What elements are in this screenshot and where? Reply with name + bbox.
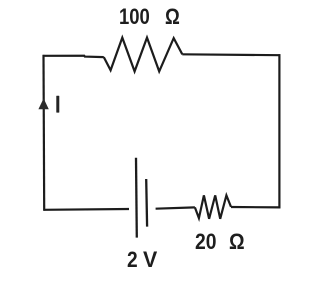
battery B1 long plate xyxy=(135,158,138,238)
wire bottom-left segment (corner to battery) xyxy=(43,208,129,211)
resistor R2 20 ohm xyxy=(195,195,231,218)
wire left vertical xyxy=(42,55,45,211)
wire top-left segment xyxy=(43,56,104,57)
label ohm (R2 unit) xyxy=(229,231,245,253)
wire bottom-mid segment (battery to R2) xyxy=(156,207,195,208)
label ohm (R1 unit) xyxy=(165,6,180,28)
wire top-right segment xyxy=(182,53,280,56)
wire bottom-right segment xyxy=(231,206,280,209)
wire right vertical xyxy=(278,54,280,208)
label 2 (battery value digit) xyxy=(127,249,138,271)
label I xyxy=(56,96,59,113)
battery B1 short plate xyxy=(145,179,148,227)
label V (battery unit) xyxy=(143,249,157,271)
resistor R1 100 ohm xyxy=(104,38,183,72)
label 100 (R1 value) xyxy=(119,6,150,28)
current arrow I xyxy=(38,98,48,109)
label 20 (R2 value) xyxy=(195,231,216,253)
